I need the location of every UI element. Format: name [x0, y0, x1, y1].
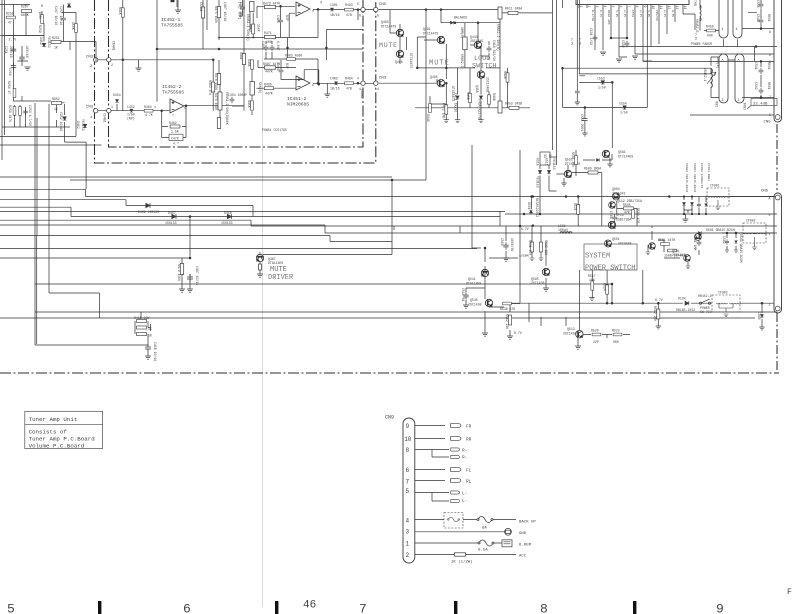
transistor Q541 — [481, 269, 488, 276]
svg-text:R518 47B: R518 47B — [636, 208, 640, 223]
CN9 pin numbers — [404, 423, 412, 559]
capacitor C582 — [725, 239, 729, 245]
svg-text:#D981 CRA15-B2UH: #D981 CRA15-B2UH — [693, 163, 696, 192]
wire y248.5 — [0, 248, 477, 250]
svg-text:HR452-2: HR452-2 — [698, 294, 711, 298]
svg-text:#D982 CRA15-B2UH: #D982 CRA15-B2UH — [685, 163, 688, 192]
transistor Q552 — [649, 243, 656, 250]
svg-text:DTC144TS: DTC144TS — [381, 25, 396, 29]
svg-text:CN5: CN5 — [764, 121, 772, 125]
svg-text:MUTE: MUTE — [429, 60, 450, 68]
IC401 pin voltage labels — [570, 10, 697, 45]
svg-text:CN3: CN3 — [86, 106, 94, 110]
diode column labels — [685, 163, 710, 192]
resistor R493 — [345, 8, 354, 11]
svg-text:1.5K: 1.5K — [171, 130, 179, 134]
svg-text:6: 6 — [298, 79, 300, 82]
svg-text:C41B 10/16: C41B 10/16 — [153, 342, 157, 361]
svg-text:150K: 150K — [257, 24, 261, 32]
svg-text:0.047: 0.047 — [276, 41, 280, 51]
svg-text:R520: R520 — [591, 329, 599, 333]
diode D501 — [529, 210, 532, 213]
ground D471 — [455, 120, 460, 123]
svg-text:R464: R464 — [144, 105, 152, 109]
svg-text:RC5052J032: RC5052J032 — [535, 198, 539, 217]
ground C41B — [147, 352, 149, 356]
wire y199.7 — [0, 200, 253, 217]
wire y254.5 mute driver collector — [263, 180, 392, 255]
ground IC401 a — [600, 52, 606, 55]
svg-text:RR: RR — [466, 438, 472, 443]
svg-text:0511: 0511 — [545, 158, 549, 166]
resistor R512 — [508, 315, 511, 325]
svg-text:B.REM: B.REM — [519, 544, 532, 548]
svg-text:C251: C251 — [4, 46, 8, 54]
svg-text:C5481: C5481 — [199, 2, 203, 12]
capacitor C981 — [705, 204, 708, 207]
svg-text:47K: 47K — [624, 211, 630, 215]
ground C504 — [503, 258, 509, 261]
capacitor C545 — [759, 2, 764, 8]
CN9 terminal RL — [451, 479, 461, 483]
diode D459 — [146, 203, 150, 208]
transistor Q497 — [477, 71, 484, 78]
svg-text:1: 1 — [406, 541, 410, 548]
transistor Q540 — [485, 299, 492, 306]
svg-text:5: 5 — [769, 213, 771, 217]
svg-text:Q512 2SB1735A: Q512 2SB1735A — [617, 199, 642, 203]
capacitor C251 — [11, 46, 16, 53]
svg-text:A: A — [769, 197, 771, 201]
CN9 terminal R-1 — [451, 448, 460, 451]
ground Q581 — [686, 266, 691, 269]
svg-text:C478: C478 — [171, 136, 179, 140]
svg-text:R453: R453 — [249, 24, 253, 32]
transistor Q443 — [474, 41, 481, 48]
svg-text:G: G — [377, 14, 379, 18]
svg-text:C497 RMA: C497 RMA — [239, 2, 243, 17]
ground CF903 — [724, 314, 729, 317]
svg-text:R463 47K: R463 47K — [208, 80, 212, 95]
backup fuse symbol — [448, 517, 460, 522]
transistor Q491 — [437, 36, 444, 43]
svg-text:C472 1MD: C472 1MD — [442, 103, 446, 118]
svg-text:100uH: 100uH — [558, 228, 568, 232]
ground C46A — [478, 120, 483, 123]
svg-text:R952: R952 — [52, 97, 60, 101]
ground IC452-1 top — [175, 10, 181, 13]
diode D453 — [63, 117, 67, 120]
svg-text:R475 150K: R475 150K — [214, 6, 218, 23]
capacitor C41B — [145, 344, 151, 352]
svg-text:2SC3458: 2SC3458 — [618, 242, 631, 246]
svg-text:2: 2 — [406, 552, 410, 559]
svg-text:1B/16: 1B/16 — [330, 87, 340, 91]
svg-text:IC451-2: IC451-2 — [287, 96, 307, 102]
resistor R953 — [509, 106, 519, 109]
capacitor C254 — [23, 109, 28, 115]
svg-text:Y03153: Y03153 — [47, 36, 51, 48]
svg-text:2: 2 — [90, 65, 93, 69]
potentiometer VR451-1 lower gang — [250, 82, 255, 96]
ground Q551 — [557, 165, 569, 183]
svg-text:C554: C554 — [619, 102, 627, 106]
svg-text:4: 4 — [320, 1, 322, 5]
big loop wire x426 — [70, 10, 426, 180]
svg-text:SWITCH: SWITCH — [472, 63, 496, 71]
svg-text:6: 6 — [738, 59, 740, 63]
resistor R260 — [19, 107, 22, 116]
resistor R520 — [592, 333, 601, 336]
fader connector CN6a — [719, 0, 728, 38]
wire y318 — [0, 317, 755, 319]
svg-text:R-: R- — [462, 449, 467, 454]
ground CF901 — [716, 207, 721, 210]
legend text — [29, 416, 95, 450]
svg-text:R41B 22W: R41B 22W — [134, 316, 149, 320]
wire y233 — [325, 232, 777, 234]
svg-text:C582: C582 — [722, 236, 726, 244]
resistor R478 — [217, 74, 220, 85]
svg-text:10K: 10K — [589, 278, 595, 282]
capacitor C495 — [278, 18, 283, 24]
svg-text:7: 7 — [406, 478, 410, 485]
svg-text:4.7K: 4.7K — [145, 113, 153, 117]
resistor R459 — [707, 29, 716, 32]
connector CN5 right bottom — [774, 193, 782, 313]
svg-text:8.6V: 8.6V — [671, 10, 674, 17]
svg-text:1K (1/2W): 1K (1/2W) — [451, 560, 473, 565]
svg-text:2: 2 — [587, 6, 591, 8]
ground R531 — [530, 258, 535, 261]
connector CN5 pin6 top — [361, 7, 365, 11]
CN9 terminal L-1 — [451, 491, 460, 494]
ground IC401 c — [616, 59, 622, 62]
wire y225 — [0, 225, 325, 233]
svg-text:G: G — [359, 14, 361, 18]
resistor R258 — [13, 107, 16, 116]
svg-text:1: 1 — [184, 107, 186, 110]
transistor Q551 — [564, 170, 571, 177]
svg-text:R45K: R45K — [247, 100, 251, 108]
fader wires — [643, 0, 774, 61]
svg-text:NJM2068S: NJM2068S — [287, 102, 309, 108]
svg-text:2SC1458: 2SC1458 — [563, 332, 576, 336]
svg-text:10: 10 — [404, 436, 412, 443]
wire y196.5 — [86, 196, 778, 198]
wire junction x190 — [189, 216, 191, 259]
svg-text:Q45A: Q45A — [475, 85, 479, 93]
svg-text:CN9: CN9 — [385, 415, 394, 421]
ground Q540 — [482, 333, 488, 336]
svg-text:4: 4 — [377, 87, 379, 91]
svg-text:1.7V: 1.7V — [570, 38, 573, 45]
svg-text:MUTE: MUTE — [270, 266, 287, 274]
capacitor C481 — [330, 8, 333, 11]
resistor R487 — [265, 66, 276, 69]
svg-text:C267 1R/16: C267 1R/16 — [54, 6, 58, 25]
attenuation callout 22.4dB — [747, 99, 777, 110]
svg-text:14: 14 — [683, 6, 687, 10]
capacitor C510 — [463, 292, 468, 299]
inductor HR452-B — [700, 5, 701, 21]
transistor Q512 — [609, 202, 616, 209]
svg-text:D454: D454 — [113, 93, 121, 97]
CN9 terminal FL — [451, 468, 461, 472]
connector CN9 body — [403, 418, 415, 563]
svg-text:1/50: 1/50 — [598, 86, 606, 90]
svg-text:Q540: Q540 — [470, 298, 478, 302]
power section wires — [466, 150, 777, 336]
resistor R252 1K — [52, 101, 62, 104]
svg-text:160K: 160K — [225, 117, 229, 125]
wires Q513 row — [578, 335, 630, 347]
svg-text:R-: R- — [462, 456, 467, 461]
svg-text:Y03153: Y03153 — [536, 176, 540, 188]
ground IC401 b — [632, 56, 638, 59]
svg-text:3: 3 — [722, 98, 724, 102]
svg-text:C487 10/16: C487 10/16 — [195, 266, 199, 285]
svg-text:3: 3 — [312, 10, 314, 13]
svg-text:TA75558S: TA75558S — [161, 23, 183, 29]
svg-text:CN5: CN5 — [379, 3, 387, 7]
svg-text:R001: R001 — [767, 14, 771, 22]
resistor R464 — [144, 109, 153, 112]
resistor R257 — [22, 9, 32, 12]
resistor R463 vertical — [212, 82, 215, 92]
svg-text:4: 4 — [736, 27, 738, 31]
svg-text:DTC144TS: DTC144TS — [409, 53, 413, 68]
diode D412 — [83, 124, 87, 127]
svg-text:R471: R471 — [264, 31, 272, 35]
svg-text:R476 150K: R476 150K — [214, 93, 218, 110]
svg-text:683K: 683K — [21, 13, 29, 17]
svg-text:4: 4 — [406, 517, 410, 524]
svg-text:Q501: Q501 — [612, 237, 620, 241]
svg-text:2SC1458: 2SC1458 — [468, 303, 481, 307]
resistor R522 — [613, 333, 622, 336]
svg-text:8: 8 — [540, 602, 548, 614]
wire vertical x472 — [471, 145, 473, 249]
svg-text:1: 1 — [90, 116, 93, 120]
ground Q561 — [609, 158, 611, 164]
fader connector CN6b — [733, 0, 742, 38]
resistor R251 1K — [51, 40, 61, 43]
svg-text:4: 4 — [154, 106, 156, 109]
resistor R416 on CN441 line — [121, 8, 124, 17]
svg-text:4.7: 4.7 — [173, 142, 179, 146]
svg-text:5: 5 — [611, 6, 615, 8]
resistor R465 — [217, 118, 220, 129]
right edge chain line — [776, 124, 778, 373]
ground Q467 — [257, 274, 263, 277]
svg-text:6A: 6A — [482, 527, 487, 531]
svg-text:0510: 0510 — [536, 158, 540, 166]
svg-text:Q513: Q513 — [567, 327, 575, 331]
IC401 body top — [576, 0, 689, 5]
svg-text:CN3: CN3 — [86, 56, 94, 60]
capacitor C454 — [230, 97, 235, 103]
resistor R468 below Q467 — [259, 252, 262, 274]
svg-text:L-: L- — [462, 499, 467, 504]
diode D511 — [538, 170, 542, 173]
ground C549 — [575, 102, 580, 105]
diode D457 — [172, 214, 176, 219]
B.REM plug — [502, 540, 512, 547]
resistor R51A — [606, 285, 609, 294]
svg-text:SYSTEM: SYSTEM — [585, 253, 610, 261]
connector CN441 pin2 — [107, 58, 111, 62]
svg-text:R536 47K: R536 47K — [500, 307, 515, 311]
svg-text:R4RK: R4RK — [247, 59, 251, 67]
svg-text:2.1V: 2.1V — [663, 10, 666, 17]
wire y284 — [35, 283, 612, 285]
resistor R521 — [577, 205, 580, 215]
ground near CN3 — [136, 68, 142, 71]
svg-text:8: 8 — [635, 6, 639, 8]
svg-text:DRIVER: DRIVER — [268, 274, 294, 282]
svg-text:2SD1343: 2SD1343 — [612, 192, 625, 196]
capacitor C982 — [697, 202, 701, 208]
svg-text:3: 3 — [595, 6, 599, 8]
ground Q513 — [575, 346, 581, 349]
svg-text:C555: C555 — [756, 0, 760, 8]
ground C980 — [759, 327, 764, 330]
svg-text:R001: R001 — [767, 82, 771, 90]
svg-text:FR: FR — [466, 425, 472, 430]
svg-text:SW 7CH: SW 7CH — [700, 310, 712, 314]
resistor R484 — [251, 60, 254, 69]
svg-text:Y03153: Y03153 — [81, 119, 85, 131]
svg-text:#C982 A/RRA/16: #C982 A/RRA/16 — [700, 163, 704, 188]
transistor Q465 — [396, 29, 403, 36]
svg-text:040: 040 — [707, 34, 713, 38]
resistor R518 — [632, 210, 635, 219]
svg-text:3: 3 — [738, 98, 740, 102]
svg-text:R481: R481 — [239, 52, 243, 60]
svg-text:Q465: Q465 — [381, 20, 389, 24]
svg-text:Y03153: Y03153 — [552, 158, 556, 170]
svg-text:DB185-J032: DB185-J032 — [676, 308, 695, 312]
board boundary chain line bottom — [0, 372, 779, 374]
transistor Q501 — [604, 240, 611, 247]
svg-text:C452: C452 — [127, 105, 135, 109]
svg-text:R42B: R42B — [503, 71, 507, 79]
wire y211.4 — [0, 210, 505, 212]
volume connector CN61a — [719, 54, 728, 103]
svg-text:C454 1000P: C454 1000P — [228, 93, 247, 97]
resistor R532 — [539, 242, 542, 252]
capacitor C472 — [445, 105, 448, 114]
transistor Q904 series — [612, 193, 619, 200]
svg-text:C495: C495 — [276, 15, 280, 23]
svg-text:R521: R521 — [573, 203, 577, 211]
capacitor C581 — [697, 240, 702, 246]
svg-text:Q466: Q466 — [395, 60, 403, 64]
ruler numbers — [7, 602, 724, 614]
resistor R012 vertical — [498, 101, 502, 113]
resistor R259 100K — [41, 15, 44, 24]
svg-text:B3P: B3P — [285, 15, 289, 21]
svg-text:50K(B): 50K(B) — [258, 82, 262, 94]
svg-text:R255: R255 — [6, 12, 14, 16]
svg-text:5: 5 — [769, 113, 771, 117]
svg-text:D458: D458 — [224, 211, 232, 215]
svg-text:C467 1R/1W: C467 1R/1W — [223, 2, 227, 21]
resistor R256 — [13, 89, 16, 98]
IC401 pin stubs — [579, 5, 683, 62]
ground R479 — [179, 289, 185, 292]
svg-text:DTA114ES: DTA114ES — [466, 282, 481, 286]
capacitor C552 box — [540, 152, 550, 165]
ground R532 — [539, 258, 544, 261]
transistor Q466 — [396, 50, 403, 57]
svg-text:5.8V: 5.8V — [615, 10, 618, 17]
svg-text:DTC144ES: DTC144ES — [618, 155, 633, 159]
svg-text:1MM(B): 1MM(B) — [716, 57, 720, 69]
cut component top edge — [171, 0, 175, 2]
wire vertical x36.5 — [36, 236, 38, 345]
svg-text:3: 3 — [406, 528, 410, 535]
filter CF903 — [712, 295, 740, 312]
svg-text:DTC144TS: DTC144TS — [423, 32, 438, 36]
svg-text:R479 100K: R479 100K — [177, 264, 181, 281]
capacitor C478 box — [169, 134, 183, 140]
capacitor C467 — [240, 5, 245, 12]
resistor R489 — [251, 101, 254, 110]
svg-text:0.5A: 0.5A — [478, 549, 488, 553]
svg-text:7: 7 — [359, 602, 367, 614]
resistor R473 — [265, 5, 276, 8]
op-amp IC451-2 — [296, 76, 310, 90]
svg-text:7: 7 — [627, 6, 631, 8]
svg-text:R448: R448 — [426, 114, 430, 122]
paper fold crease line — [262, 0, 264, 607]
capacitor C256 — [11, 63, 16, 70]
capacitor C504 — [503, 242, 508, 249]
diode D452 — [42, 43, 46, 46]
svg-text:IC452-1: IC452-1 — [161, 17, 181, 23]
svg-text:R953 343B: R953 343B — [505, 102, 522, 106]
svg-text:R45B: R45B — [466, 92, 470, 100]
svg-text:HR452-B: HR452-B — [695, 19, 699, 32]
resistor R517 — [591, 281, 594, 290]
capacitor C554 — [623, 106, 627, 109]
svg-text:46: 46 — [303, 600, 316, 612]
resistor R462 feedback — [170, 125, 180, 128]
svg-text:4: 4 — [722, 27, 724, 31]
ground C551 — [582, 133, 587, 136]
svg-text:2SB1243: 2SB1243 — [672, 253, 685, 257]
svg-text:7: 7 — [769, 95, 771, 99]
resistor R483 — [287, 58, 296, 61]
wire y189 — [0, 189, 86, 196]
svg-text:R49B: R49B — [492, 93, 496, 101]
capacitor C562 — [759, 88, 764, 94]
svg-text:2: 2 — [298, 4, 300, 7]
ruler tick 3 — [454, 601, 457, 614]
svg-text:CN3: CN3 — [379, 77, 387, 81]
svg-text:R259: R259 — [38, 25, 42, 33]
svg-text:C591 1/50: C591 1/50 — [589, 28, 593, 45]
diode D583 — [735, 241, 738, 244]
svg-text:L-: L- — [462, 492, 467, 497]
svg-text:R561 47K: R561 47K — [571, 152, 575, 167]
ruler tick 2 — [275, 601, 278, 614]
svg-text:Tuner Amp Unit: Tuner Amp Unit — [29, 416, 78, 423]
svg-text:D501: D501 — [527, 202, 531, 210]
ground IC451-2 — [324, 94, 330, 97]
